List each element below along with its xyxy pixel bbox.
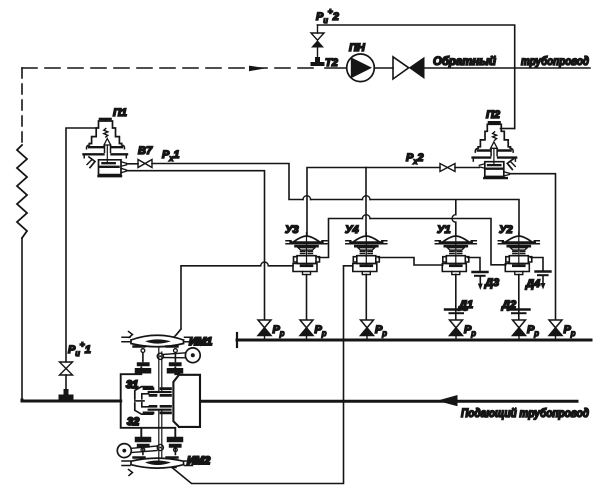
manifold line bbox=[237, 333, 591, 347]
upper housing steps bbox=[478, 124, 510, 147]
lower brim bbox=[445, 245, 467, 248]
seat bars top row bbox=[144, 387, 171, 390]
stem bbox=[365, 236, 367, 265]
lower body bbox=[293, 264, 317, 272]
drain valve Pp at x=456 bbox=[450, 320, 463, 340]
svg-text:Д4: Д4 bbox=[525, 278, 540, 290]
IM2 posts bbox=[143, 448, 176, 455]
drain valve Pp at x=306.5 bbox=[300, 320, 313, 340]
upper body bbox=[509, 256, 528, 264]
flange bar bbox=[473, 156, 516, 158]
wire: U1 feed with hop bbox=[452, 201, 456, 236]
mid shelf bbox=[135, 400, 144, 402]
svg-text:У2: У2 bbox=[499, 224, 513, 236]
wire: U4 bottom stem bbox=[365, 275, 367, 320]
lower body bbox=[353, 264, 377, 272]
seat bars bottom row bbox=[144, 412, 171, 415]
bottom edge bbox=[99, 175, 122, 177]
diaphragm curls bbox=[86, 145, 124, 149]
brim bbox=[291, 241, 322, 244]
left wing bbox=[353, 257, 357, 262]
brim bbox=[503, 241, 534, 244]
body outline bbox=[121, 368, 180, 442]
wire: U3 bottom stem bbox=[306, 275, 308, 320]
wire: U3 left port to IM1 bbox=[177, 262, 294, 335]
spring bbox=[104, 129, 108, 138]
control valve U1 bbox=[435, 233, 476, 275]
svg-text:31: 31 bbox=[126, 379, 138, 391]
svg-text:Обратный: Обратный bbox=[433, 56, 496, 68]
lower brim bbox=[355, 245, 377, 248]
valve Ru2 bowtie bbox=[311, 25, 324, 48]
actuator IM2 bbox=[122, 458, 193, 476]
cup bbox=[358, 248, 375, 250]
flange bar bbox=[84, 153, 128, 155]
valve body bbox=[485, 162, 504, 177]
flow arrow on dashed line bbox=[249, 66, 266, 72]
svg-text:Д1: Д1 bbox=[458, 299, 473, 311]
pump PN bbox=[347, 54, 375, 82]
pilot triangle bbox=[491, 142, 498, 149]
lower body bbox=[442, 264, 466, 272]
spring bbox=[493, 132, 497, 141]
bottom neck bbox=[515, 272, 523, 275]
dome bbox=[443, 236, 468, 242]
disc bbox=[450, 264, 461, 267]
left wing bbox=[443, 257, 447, 262]
plug guide bbox=[105, 145, 111, 152]
svg-text:У1: У1 bbox=[437, 224, 451, 236]
radiator zigzag bbox=[17, 145, 27, 238]
cup bbox=[447, 248, 464, 250]
sensor pocket on supply line bbox=[59, 389, 74, 400]
IM1 post circles bbox=[141, 349, 145, 353]
drain valve Pp at x=519 bbox=[513, 320, 526, 340]
wire: Ru2 top line to P2 bbox=[318, 25, 515, 129]
IM2 lever and roller bbox=[117, 444, 157, 458]
lower brim bbox=[508, 245, 530, 248]
disc bbox=[361, 264, 372, 267]
svg-text:Д3: Д3 bbox=[484, 277, 499, 289]
plug guide bbox=[491, 149, 497, 156]
wire: return pipeline bbox=[425, 67, 591, 69]
port flares bbox=[479, 164, 509, 176]
drain valve Pp at x=264.5 bbox=[258, 320, 271, 340]
sensor D4 bbox=[536, 272, 551, 290]
svg-text:32: 32 bbox=[127, 416, 139, 428]
seat bars row2 bbox=[150, 394, 171, 397]
left wing bbox=[506, 257, 510, 262]
sensor D1 bbox=[445, 310, 467, 314]
wire: left riser solid bbox=[21, 238, 23, 400]
dome bbox=[354, 236, 379, 242]
IM1 neck flanges bbox=[138, 368, 181, 374]
seat bars bbox=[100, 166, 119, 168]
svg-text:У3: У3 bbox=[285, 224, 299, 236]
top cap bbox=[489, 121, 500, 124]
lower brim bbox=[296, 245, 318, 248]
supply pipeline left segment bbox=[22, 400, 121, 401]
diaphragm bar bbox=[478, 149, 511, 151]
stem bbox=[518, 236, 520, 265]
svg-text:В7: В7 bbox=[138, 145, 153, 157]
svg-text:ИМ2: ИМ2 bbox=[187, 455, 210, 467]
wire: U4 right port to U1 left port bbox=[378, 258, 443, 266]
inner bracket upper bbox=[135, 387, 153, 415]
wire: Px1 line bbox=[152, 164, 519, 236]
lower stem bbox=[159, 410, 162, 461]
svg-text:Д2: Д2 bbox=[501, 299, 516, 311]
stem bbox=[493, 148, 495, 165]
wire: Px2 line feeding U3 U4 bbox=[307, 168, 440, 236]
bellows bbox=[360, 251, 372, 255]
bellows bbox=[301, 251, 313, 255]
upper body bbox=[297, 256, 316, 264]
wire: P2 bottom right to last Pp valve bbox=[509, 174, 555, 319]
bottom left hook bbox=[89, 157, 95, 168]
wire: dashed impulse line top horizontal bbox=[22, 67, 316, 69]
wire: U2 right port to D4 bbox=[531, 258, 543, 271]
port flares bbox=[121, 162, 127, 173]
IM2 stem circle bbox=[157, 444, 163, 450]
supply pipeline right segment bbox=[201, 400, 577, 403]
bottom right hook bbox=[507, 159, 513, 170]
regulator P1 bbox=[84, 119, 128, 176]
wire: U1 right port to D3 bbox=[468, 258, 480, 272]
IM1 stem circle bbox=[157, 353, 163, 359]
drain valves Pp on manifold bbox=[258, 320, 576, 340]
diaphragm bar bbox=[89, 146, 122, 148]
control valve U3 bbox=[286, 233, 327, 275]
brim bbox=[440, 241, 471, 244]
bottom neck bbox=[303, 272, 311, 275]
cup bbox=[510, 248, 527, 250]
bottom edge bbox=[484, 177, 507, 179]
wire: P1 port to V7 bbox=[127, 163, 139, 165]
regulator P2 bbox=[473, 122, 516, 178]
right wing bbox=[316, 257, 320, 262]
svg-text:У4: У4 bbox=[345, 224, 359, 236]
valve V7 bbox=[138, 160, 152, 168]
upper housing steps bbox=[89, 121, 121, 144]
wire: T2 to pump bbox=[325, 67, 347, 69]
drain valve Pp at x=555.5 bbox=[549, 320, 562, 340]
seat bars bbox=[486, 168, 503, 170]
cup bbox=[298, 248, 315, 250]
disc lower bbox=[149, 409, 171, 411]
brim bbox=[351, 241, 382, 244]
inner mid bracket bbox=[142, 394, 149, 407]
upper body bbox=[357, 256, 376, 264]
disc bar bbox=[102, 162, 114, 164]
IM2 post circles bbox=[141, 448, 145, 452]
svg-text:Подающий трубопровод: Подающий трубопровод bbox=[461, 408, 589, 420]
right wing bbox=[465, 257, 469, 262]
node T2 sensor pocket bbox=[311, 47, 325, 66]
left wing bbox=[294, 257, 298, 262]
bellows bbox=[513, 251, 525, 255]
dome bbox=[506, 236, 531, 242]
valve body bbox=[99, 160, 122, 175]
wire: P1 left branch bbox=[66, 128, 96, 362]
top cap bbox=[100, 118, 111, 121]
wire: U4 left port down to IM2 drain bbox=[172, 266, 353, 484]
svg-text:П2: П2 bbox=[486, 109, 500, 121]
disc bar bbox=[488, 164, 500, 166]
lower body bbox=[505, 264, 529, 272]
actuator IM1 bbox=[122, 332, 193, 347]
wire: feed into IM1 bbox=[174, 329, 181, 337]
IM1 posts bbox=[143, 353, 176, 362]
wire: IM2 drain diagonal bbox=[172, 467, 176, 469]
control valve U4 bbox=[346, 233, 387, 275]
svg-text:трубопровод: трубопровод bbox=[521, 56, 589, 68]
stem bbox=[306, 236, 308, 265]
wire: P2 top right connect bbox=[501, 128, 515, 130]
flow arrow on supply line bbox=[437, 395, 458, 406]
svg-text:ПН: ПН bbox=[349, 42, 366, 54]
disc upper bbox=[149, 391, 171, 393]
check valve bbox=[393, 57, 425, 79]
wire: dashed left riser bbox=[21, 68, 23, 145]
upper body bbox=[446, 256, 465, 264]
disc bbox=[301, 264, 312, 267]
diaphragm curls bbox=[475, 148, 513, 152]
IM1 lever and roller bbox=[163, 348, 200, 363]
bottom neck bbox=[362, 272, 370, 275]
dome bbox=[294, 236, 319, 242]
wire: U3 right port chain to U2 left port bbox=[319, 215, 506, 265]
mixer block bbox=[117, 329, 212, 476]
control valve U2 bbox=[498, 233, 539, 275]
drain valve Pp at x=367 bbox=[361, 320, 374, 340]
pilot triangle bbox=[104, 139, 111, 146]
right wing bbox=[528, 257, 532, 262]
svg-text:ИМ1: ИМ1 bbox=[189, 336, 212, 348]
wire: Px2 valve to P2 bbox=[455, 167, 479, 169]
bellows bbox=[450, 251, 462, 255]
stem bbox=[455, 236, 457, 265]
seat bars row3 bbox=[150, 405, 171, 408]
wire: U2 bottom stem bbox=[518, 275, 520, 320]
right wing bbox=[376, 257, 380, 262]
disc bbox=[513, 264, 524, 267]
upper stem bbox=[159, 348, 162, 393]
IM2 neck flanges bbox=[138, 437, 181, 443]
sensor D2 bbox=[508, 310, 530, 314]
stem bbox=[106, 145, 108, 163]
valve Ru1 bowtie bbox=[60, 362, 73, 389]
wire: P1 second output down to Pp bbox=[127, 171, 265, 319]
wire: pump to check valve bbox=[374, 67, 393, 69]
sensor D3 bbox=[473, 272, 488, 290]
wire: U1 bottom stem bbox=[455, 275, 457, 320]
bottom neck bbox=[452, 272, 460, 275]
svg-text:П1: П1 bbox=[113, 107, 127, 119]
valve Px2 bbox=[440, 164, 455, 172]
